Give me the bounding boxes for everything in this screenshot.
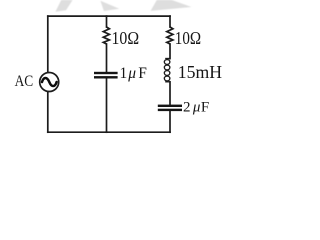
svg-text:μ: μ xyxy=(192,99,201,115)
svg-text:AC: AC xyxy=(15,73,34,90)
svg-text:F: F xyxy=(138,65,147,82)
svg-text:μ: μ xyxy=(127,65,136,82)
svg-text:10Ω: 10Ω xyxy=(175,28,201,48)
svg-text:1: 1 xyxy=(120,65,128,82)
svg-text:2: 2 xyxy=(183,99,191,115)
svg-text:10Ω: 10Ω xyxy=(112,28,140,48)
svg-text:15mH: 15mH xyxy=(178,62,222,82)
svg-text:F: F xyxy=(201,99,209,115)
